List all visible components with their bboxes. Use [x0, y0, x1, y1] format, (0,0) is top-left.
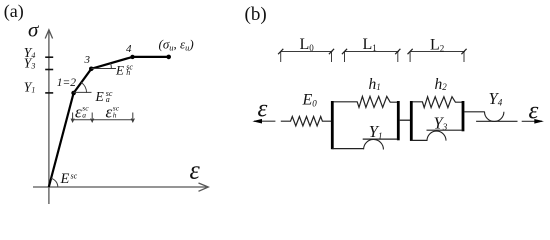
L2 left slash — [408, 49, 413, 54]
Y3 upper rail — [427, 129, 463, 131]
angle arc at point 1=2 — [81, 82, 86, 93]
curve segment 3 to 4 — [91, 57, 132, 69]
Y3 tick — [45, 69, 53, 71]
ultimate point dot — [166, 55, 171, 60]
box2 right bar — [462, 101, 465, 131]
svg-text:E: E — [95, 89, 105, 104]
svg-text:ε: ε — [529, 98, 539, 125]
angle reference line at point 1=2 — [74, 91, 92, 93]
svg-text:h: h — [126, 68, 130, 77]
L1 left extension — [344, 52, 346, 63]
L1 right slash — [395, 49, 400, 54]
L2 left extension — [409, 52, 411, 63]
svg-text:h: h — [113, 110, 117, 119]
box2 left bar — [410, 101, 413, 141]
box2 bottom lower rail — [411, 139, 427, 141]
box2 top branch with spring h2 — [413, 97, 463, 108]
spring E0 — [281, 117, 331, 126]
Y1 tick — [45, 92, 53, 94]
svg-text:ε: ε — [258, 95, 268, 122]
point 1=2 dot — [71, 91, 76, 96]
dimension L1 line — [345, 51, 399, 53]
L0 right slash — [329, 49, 334, 54]
L2 right slash — [461, 49, 466, 54]
angle arc at point 3 — [110, 63, 113, 69]
L0 left extension — [280, 52, 282, 63]
svg-text:(b): (b) — [245, 4, 267, 25]
curve segment origin to point 1=2 — [49, 93, 74, 187]
svg-text:4: 4 — [126, 43, 132, 55]
svg-text:(a): (a) — [4, 1, 24, 22]
svg-text:(σu, εu): (σu, εu) — [159, 37, 194, 53]
svg-text:σ: σ — [28, 18, 40, 42]
box1 right bar — [397, 101, 400, 140]
curve segment 4 to ultimate point — [133, 56, 169, 58]
svg-text:E: E — [60, 171, 70, 187]
Y4 tick — [45, 56, 53, 58]
L2 right extension — [463, 52, 465, 63]
svg-text:3: 3 — [84, 54, 91, 66]
box1 top branch with spring h1 — [334, 96, 398, 107]
dimension L2 line — [410, 51, 465, 53]
svg-text:ε: ε — [190, 156, 201, 185]
svg-text:ε: ε — [106, 103, 113, 122]
svg-text:E: E — [115, 63, 124, 78]
strain dim tick left — [71, 113, 74, 122]
angle reference line at point 3 — [91, 68, 116, 70]
L0 right extension — [331, 52, 333, 63]
L1 left slash — [342, 49, 347, 54]
svg-text:a: a — [82, 110, 86, 119]
strain dim tick right — [131, 113, 134, 122]
box1 bottom lower rail — [332, 148, 364, 150]
strain dimension line — [72, 119, 133, 121]
dimension L0 line — [281, 51, 333, 53]
point 3 dot — [89, 67, 94, 72]
box1 left bar — [331, 101, 334, 149]
svg-text:ε: ε — [75, 103, 82, 122]
sigma axis — [45, 30, 52, 204]
strain dim tick middle — [91, 113, 94, 122]
epsilon axis — [33, 183, 208, 191]
svg-text:1=2: 1=2 — [57, 77, 77, 89]
curve segment 1=2 to 3 — [74, 69, 92, 93]
L0 left slash — [278, 49, 283, 54]
Y1 upper rail — [363, 138, 398, 140]
right strain arrow — [522, 120, 542, 122]
angle arc at origin — [51, 178, 58, 187]
svg-text:sc: sc — [71, 172, 78, 181]
connector box1 to box2 — [400, 119, 412, 121]
Y4 friction surface rail — [476, 120, 517, 122]
left strain arrow — [254, 120, 275, 122]
Y3 friction dome — [427, 131, 446, 141]
point 4 dot — [130, 55, 134, 59]
Y4 lead line — [464, 111, 485, 113]
L1 right extension — [397, 52, 399, 63]
Y1 friction dome — [364, 139, 384, 149]
Y4 friction cup — [485, 112, 504, 122]
